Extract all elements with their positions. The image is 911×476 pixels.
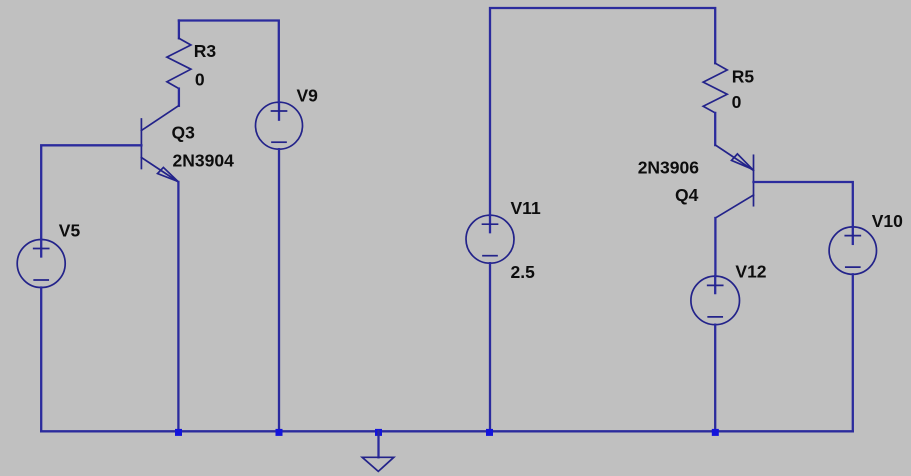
label 2N3906 xyxy=(638,158,700,178)
wire Q4 collector to V12 xyxy=(714,218,716,276)
junction V12 at bottom rail xyxy=(712,429,719,436)
wire V11 bottom xyxy=(489,263,491,431)
svg-text:0: 0 xyxy=(732,92,742,112)
svg-text:V12: V12 xyxy=(735,261,766,281)
svg-text:2.5: 2.5 xyxy=(511,262,536,282)
wire V10 bottom xyxy=(852,274,854,431)
wire V9 bottom xyxy=(278,149,280,431)
svg-text:Q3: Q3 xyxy=(172,123,196,143)
svg-text:V5: V5 xyxy=(59,221,81,241)
label V9 xyxy=(297,86,319,106)
voltage source V12 xyxy=(691,276,740,325)
resistor R5 xyxy=(703,63,727,145)
svg-text:2N3904: 2N3904 xyxy=(173,151,235,171)
label Q4 xyxy=(675,185,699,205)
voltage source V11 xyxy=(466,215,514,263)
voltage source V10 xyxy=(829,227,876,274)
wire top-left from R3 top to V9 top xyxy=(179,21,279,103)
label R3 xyxy=(194,41,217,61)
label V5 xyxy=(59,221,81,241)
label 2N3904 xyxy=(173,151,235,171)
label V10 xyxy=(872,211,903,231)
svg-text:R5: R5 xyxy=(732,67,755,87)
wire Q3 emitter down xyxy=(177,182,179,431)
value 0 of R3 xyxy=(195,69,205,89)
wire Q4 base to V10 xyxy=(754,182,853,227)
label V12 xyxy=(735,261,766,281)
voltage source V9 xyxy=(256,102,303,149)
svg-text:V9: V9 xyxy=(297,86,319,106)
value 2.5 of V11 xyxy=(511,262,536,282)
svg-text:V10: V10 xyxy=(872,211,903,231)
junction V9 at bottom rail xyxy=(276,429,283,436)
svg-text:0: 0 xyxy=(195,69,205,89)
ground xyxy=(362,431,394,471)
transistor Q3 xyxy=(141,106,178,182)
wire V12 bottom xyxy=(714,325,716,432)
wire Q3 base to V5 xyxy=(41,145,141,239)
svg-text:V11: V11 xyxy=(511,198,541,218)
svg-text:R3: R3 xyxy=(194,41,217,61)
value 0 of R5 xyxy=(732,92,742,112)
label V11 xyxy=(511,198,541,218)
junction V11 at bottom rail xyxy=(486,429,493,436)
voltage source V5 xyxy=(17,240,65,288)
resistor R3 xyxy=(167,21,191,106)
wire bottom rail xyxy=(41,430,853,432)
svg-text:2N3906: 2N3906 xyxy=(638,158,700,178)
transistor Q4 xyxy=(715,145,753,218)
label Q3 xyxy=(172,123,196,143)
label R5 xyxy=(732,67,755,87)
svg-text:Q4: Q4 xyxy=(675,185,699,205)
junction Q3 emitter at bottom rail xyxy=(175,429,182,436)
wire V5 bottom xyxy=(40,288,42,432)
junction ground node xyxy=(375,429,382,436)
wire top-right V11 to R5 xyxy=(490,8,715,215)
